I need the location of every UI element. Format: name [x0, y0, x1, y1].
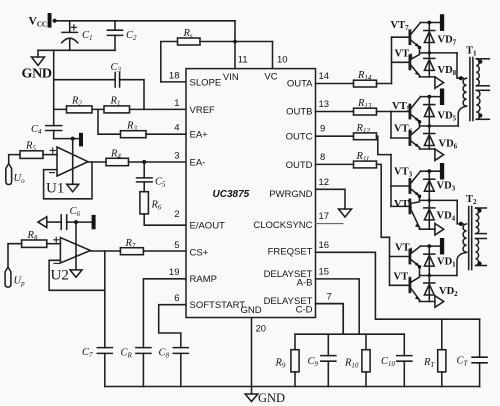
- wire R11 to leg D drive: [377, 164, 390, 237]
- resistor R14: [354, 80, 377, 87]
- supply terminal bar leg 3: [440, 163, 444, 180]
- transistor VT6: [391, 128, 420, 150]
- node leg 1 top rail: [421, 21, 440, 25]
- wire leg 1 midpoint: [420, 51, 458, 54]
- svg-text:EA+: EA+: [190, 130, 209, 141]
- terminal arrow leg 3: [435, 223, 444, 235]
- wire T1 secondary lower leads: [476, 90, 489, 119]
- svg-text:U1: U1: [46, 181, 64, 197]
- source Uo symbol: [6, 164, 12, 185]
- svg-text:12: 12: [319, 177, 330, 188]
- node T1 primary dot: [459, 76, 463, 80]
- wire FREQSET pin 16 to RT CT bus: [316, 252, 480, 319]
- wire left ground rail: [53, 50, 55, 125]
- resistor RT bottom lead: [441, 372, 443, 387]
- svg-text:UC3875: UC3875: [213, 189, 250, 200]
- transistor VT4: [391, 200, 420, 229]
- wire U1 feedback loop: [44, 162, 92, 199]
- wire leg 3 midpoint to T2 primary top: [457, 200, 463, 224]
- transformer T1 secondary lower winding: [476, 90, 480, 119]
- supply terminal bar leg 1: [440, 14, 444, 31]
- op-amp U1 minus sign: [50, 172, 55, 174]
- svg-text:RAMP: RAMP: [190, 274, 217, 285]
- resistor RT top lead: [441, 319, 443, 350]
- capacitor C1 plates (polarized): [62, 25, 78, 43]
- svg-text:A-B: A-B: [297, 278, 313, 289]
- capacitor C5 plates: [137, 178, 153, 182]
- svg-text:CLOCKSYNC: CLOCKSYNC: [253, 220, 312, 231]
- leg 2 drive wire: [390, 112, 392, 139]
- wire VCC top rail to VIN: [55, 20, 235, 22]
- resistor R10 bottom lead: [365, 372, 367, 387]
- capacitor C6 right lead: [67, 221, 92, 223]
- capacitor C9 plates: [321, 356, 336, 362]
- transistor VT5: [391, 97, 421, 126]
- wire VC vertical pin 10: [272, 42, 274, 69]
- capacitor C4 plates: [46, 126, 62, 131]
- node leg 2 top rail: [421, 95, 440, 99]
- pin number labels: [169, 55, 332, 335]
- transistor VT3: [391, 171, 421, 200]
- transistor VT1: [390, 246, 422, 275]
- svg-text:CS+: CS+: [190, 248, 209, 259]
- IC U3 UC3875 body: [186, 69, 316, 318]
- capacitor C9 top lead: [327, 334, 329, 355]
- node U1 bias junction dot: [71, 137, 75, 141]
- transformer T2 core: [469, 207, 472, 270]
- wire leg 4 emitter bottom: [420, 301, 435, 303]
- wire DELAYSET A-B pin 15: [316, 279, 360, 334]
- capacitor CT plates: [472, 357, 487, 363]
- diode VD8: [424, 53, 435, 77]
- svg-text:1: 1: [174, 98, 179, 109]
- capacitor C10 bottom lead: [403, 361, 405, 386]
- svg-text:EA-: EA-: [190, 158, 206, 169]
- ground symbol bottom: [245, 387, 258, 402]
- transformer T1 secondary upper winding: [476, 59, 479, 86]
- svg-text:OUTD: OUTD: [286, 160, 313, 171]
- capacitor C1 bottom lead: [69, 39, 71, 51]
- transistor VT8: [392, 54, 420, 77]
- diode VD2: [424, 276, 435, 302]
- supply terminal bar leg 4: [440, 238, 444, 255]
- svg-text:14: 14: [319, 71, 330, 82]
- wire leg 1 emitter bottom: [420, 76, 435, 78]
- svg-text:7: 7: [327, 292, 332, 303]
- capacitor C8 bottom lead: [180, 353, 182, 386]
- resistor R13: [354, 108, 377, 115]
- svg-text:OUTC: OUTC: [286, 132, 313, 143]
- op-amp U2 plus sign: [54, 237, 59, 242]
- resistor R2: [67, 106, 93, 113]
- diode VD1: [424, 246, 435, 275]
- capacitor C8 plates: [173, 348, 188, 354]
- resistor Rs left lead from SLOPE: [161, 42, 178, 82]
- ground symbol at PWRGND: [339, 209, 352, 217]
- svg-text:GND: GND: [258, 391, 285, 405]
- wire R14 to leg A drive: [377, 83, 392, 85]
- svg-text:8: 8: [320, 152, 325, 163]
- terminal arrow leg 2: [435, 149, 444, 160]
- terminal bar at U1 bias node: [79, 133, 83, 147]
- ground symbol top left: [32, 50, 45, 65]
- node T2 primary dot: [459, 222, 463, 226]
- wire SLOPE pin 18: [161, 81, 186, 83]
- node T1 secondary dots: [478, 60, 482, 118]
- supply terminal bar leg 2: [440, 89, 444, 106]
- svg-text:OUTB: OUTB: [286, 106, 312, 117]
- svg-text:GND: GND: [241, 305, 262, 316]
- leg 1 drive wire: [391, 37, 393, 83]
- svg-text:13: 13: [319, 99, 330, 110]
- resistor Rs: [178, 38, 201, 45]
- capacitor CR plates: [136, 348, 151, 354]
- wire OUTC pin 9: [316, 135, 354, 137]
- wire leg 3 emitter bottom: [420, 228, 435, 230]
- wire leg 4 midpoint: [420, 274, 457, 277]
- node Rs wire crossing VIN: [233, 40, 237, 44]
- resistor R10 top lead: [365, 334, 367, 350]
- node EA- junction dot: [142, 160, 146, 164]
- capacitor C10 top lead: [403, 334, 405, 355]
- node VCC junction dot: [53, 19, 57, 23]
- svg-text:2: 2: [174, 209, 179, 220]
- capacitor C1 top lead: [69, 21, 71, 32]
- svg-text:17: 17: [319, 211, 330, 222]
- diode VD7: [424, 23, 435, 53]
- svg-text:GND: GND: [22, 67, 52, 82]
- leg 4 drive wire: [389, 237, 391, 285]
- svg-text:E/AOUT: E/AOUT: [190, 221, 226, 232]
- capacitor C2 bottom lead: [114, 35, 116, 50]
- svg-text:VC: VC: [264, 72, 277, 83]
- resistor R7: [120, 248, 143, 255]
- wire VREF pin 1: [54, 108, 186, 110]
- svg-text:OUTA: OUTA: [287, 78, 313, 89]
- capacitor C3 right lead to VREF node: [120, 80, 144, 110]
- resistor RT: [438, 350, 446, 372]
- wire leg 3 midpoint: [420, 199, 458, 202]
- component value labels: [14, 28, 469, 370]
- wire GND pin 20: [251, 318, 253, 387]
- node leg 3 top rail: [421, 169, 440, 173]
- svg-text:5: 5: [174, 240, 179, 251]
- capacitor C3 plates: [115, 73, 119, 88]
- wire R12 to leg C drive: [377, 136, 392, 154]
- op-amp U1 plus sign: [50, 148, 55, 153]
- wire leg 2 midpoint: [420, 124, 459, 127]
- supply terminal VCC bar: [48, 13, 52, 28]
- svg-text:6: 6: [174, 293, 179, 304]
- transistor VT2: [390, 277, 420, 302]
- svg-text:SOFTSTART: SOFTSTART: [190, 300, 246, 311]
- wire T2 secondary lower leads: [476, 239, 487, 266]
- capacitor C5 top lead: [143, 162, 145, 178]
- svg-text:11: 11: [238, 55, 248, 66]
- wire Up to R8: [8, 244, 22, 267]
- wire Rs to VC: [200, 41, 273, 43]
- wire R5 to U1 noninverting input: [43, 154, 57, 156]
- wire Uo to R5: [9, 155, 20, 164]
- terminal arrow leg 1: [435, 77, 444, 88]
- resistor R9 bottom lead: [294, 372, 296, 387]
- svg-text:C-D: C-D: [296, 304, 313, 315]
- capacitor C2 plates: [108, 30, 123, 35]
- resistor R10: [362, 350, 370, 372]
- svg-text:PWRGND: PWRGND: [269, 189, 312, 200]
- svg-text:VIN: VIN: [223, 72, 239, 83]
- diode VD5: [424, 97, 435, 126]
- capacitor CT top lead: [479, 319, 481, 357]
- wire EA+ pin 4: [98, 133, 186, 135]
- svg-text:18: 18: [169, 71, 180, 82]
- resistor R11: [354, 161, 377, 168]
- capacitor C7 plates: [97, 348, 112, 354]
- node T2 secondary dots: [477, 208, 481, 265]
- transformer T1 core: [470, 58, 473, 121]
- transformer T2 secondary upper winding: [476, 208, 479, 234]
- resistor R6: [140, 192, 149, 214]
- wire PWRGND pin 12: [316, 189, 346, 209]
- IC pin name labels: [190, 72, 314, 316]
- node leg 4 top rail: [421, 244, 440, 248]
- svg-text:4: 4: [174, 123, 179, 134]
- wire U1 bias stem through body to ground: [72, 139, 74, 185]
- op-amp U2 triangle: [60, 238, 90, 264]
- svg-text:FREQSET: FREQSET: [268, 247, 313, 258]
- wire T2 secondary upper leads: [476, 208, 487, 234]
- resistor R8: [22, 240, 47, 247]
- op-amp U2 minus sign: [54, 262, 60, 264]
- wire R4 to EA- pin 3: [129, 161, 187, 163]
- node C6 junction dot: [74, 220, 78, 224]
- wire R7 to CS+ pin 5: [143, 250, 186, 252]
- resistor R9 top lead: [294, 334, 296, 350]
- diode VD4: [424, 200, 435, 229]
- wire T1 primary bottom to leg 2 midpoint: [458, 106, 466, 126]
- wire bottom ground rail: [105, 386, 480, 388]
- wire delay components bus: [295, 333, 404, 335]
- ground symbol below U2: [70, 255, 82, 277]
- capacitor C6 plates: [61, 215, 66, 229]
- capacitor C2 top lead: [114, 21, 116, 30]
- resistor R12: [354, 133, 377, 140]
- svg-text:15: 15: [319, 266, 330, 277]
- op-amp U1 triangle: [57, 147, 88, 176]
- capacitor C3 left lead: [54, 79, 115, 81]
- wire U2 feedback loop: [49, 251, 105, 290]
- resistor R3: [121, 131, 147, 138]
- svg-text:16: 16: [319, 240, 330, 251]
- wire leg 1 midpoint to T1 primary top: [457, 53, 463, 78]
- svg-text:VREF: VREF: [190, 105, 216, 116]
- resistor R9: [291, 350, 299, 372]
- wire DELAYSET C-D pin 7: [316, 304, 344, 335]
- wire RAMP pin 19 to CR: [143, 279, 186, 348]
- wire leg 2 emitter bottom: [420, 148, 435, 150]
- source Up symbol: [5, 267, 11, 287]
- wire OUTA pin 14: [316, 83, 354, 85]
- wire VIN vertical pin 11: [234, 21, 236, 69]
- transistor diode transformer labels: [391, 20, 478, 298]
- wire R2 R1 junction down to R3: [97, 109, 99, 134]
- wire U2 output to R7: [90, 250, 120, 252]
- resistor R6 lead from C5: [143, 182, 145, 192]
- terminal arrow left of C6: [38, 217, 47, 228]
- resistor R5: [20, 151, 43, 159]
- transformer T1 primary winding: [463, 78, 466, 106]
- capacitor C10 plates: [397, 356, 412, 362]
- wire R8 to U2 noninverting input: [47, 243, 61, 245]
- ground symbol below U1: [67, 184, 79, 192]
- capacitor CT bottom lead: [479, 363, 481, 387]
- svg-text:U2: U2: [51, 268, 69, 284]
- transistor VT7: [392, 23, 422, 53]
- capacitor CR bottom lead: [142, 353, 144, 386]
- wire T2 primary bottom to leg 4 midpoint: [457, 252, 467, 275]
- wire R13 to leg B drive: [377, 111, 392, 113]
- wire U1 output to R4: [88, 161, 106, 163]
- wire C6 node stem into U2: [75, 222, 77, 255]
- transformer T2 secondary lower winding: [476, 239, 479, 266]
- wire OUTB pin 13: [316, 111, 354, 113]
- svg-text:3: 3: [174, 151, 179, 162]
- wire T1 secondary upper leads: [476, 59, 489, 86]
- wire ground bus under C1 C2: [38, 49, 115, 51]
- capacitor C7 top lead from U2 output node: [104, 290, 106, 347]
- resistor R4: [106, 158, 129, 165]
- capacitor C6 left lead: [47, 221, 61, 223]
- capacitor C9 bottom lead: [327, 361, 329, 386]
- wire OUTD pin 8: [316, 163, 354, 165]
- svg-text:20: 20: [256, 324, 267, 335]
- wire C4 to U1 bias node: [54, 138, 79, 140]
- svg-text:19: 19: [169, 267, 180, 278]
- svg-text:9: 9: [320, 124, 325, 135]
- resistor R1: [104, 106, 130, 113]
- svg-text:10: 10: [277, 55, 288, 66]
- terminal arrow leg 4: [435, 296, 444, 308]
- wire CLOCKSYNC pin 17 stub: [316, 223, 344, 225]
- transformer T2 primary winding: [463, 224, 467, 252]
- svg-text:SLOPE: SLOPE: [190, 77, 222, 88]
- terminal bar right of C6: [92, 215, 96, 229]
- wire R6 to E/AOUT pin 2: [144, 214, 186, 225]
- capacitor C7 bottom lead: [104, 353, 106, 386]
- capacitor C4 bottom lead: [53, 131, 55, 139]
- diode VD6: [424, 126, 435, 149]
- wire SOFTSTART pin 6 to C8: [159, 305, 186, 348]
- diode VD3: [424, 171, 435, 200]
- leg 3 drive wire: [390, 155, 392, 207]
